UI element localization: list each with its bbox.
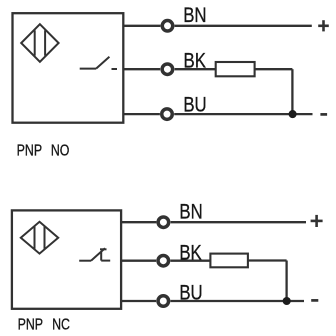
wire BU terminal to - (bottom) <box>170 300 304 302</box>
+ supply symbol (top) <box>318 20 329 31</box>
terminal circle BK (bottom) <box>158 255 169 266</box>
load resistor (bottom) <box>210 254 248 268</box>
junction node BK/BU (top) <box>289 110 297 118</box>
svg-text:BK: BK <box>179 242 202 265</box>
wire corner down to BU line (bottom) <box>285 261 287 302</box>
wire resistor to corner (top) <box>255 68 293 70</box>
wire BN box to terminal (bottom) <box>121 221 156 223</box>
wire BU box to terminal (top) <box>123 113 160 115</box>
inductive sensor symbol (diamond, top) <box>21 24 58 62</box>
wire corner down to BU line (top) <box>291 69 293 114</box>
wire BK terminal to load resistor (bottom) <box>170 260 210 262</box>
terminal circle BU (bottom) <box>158 296 169 307</box>
svg-text:NO: NO <box>51 141 70 159</box>
NC switch contact <box>79 248 110 261</box>
wire BU terminal to - (top) <box>174 113 312 115</box>
terminal circle BU (top) <box>162 109 173 120</box>
wire resistor to corner (bottom) <box>248 259 287 261</box>
svg-text:BN: BN <box>183 5 206 28</box>
wire BN terminal to + (bottom) <box>171 221 306 223</box>
svg-text:NC: NC <box>52 315 70 333</box>
svg-text:BN: BN <box>179 201 202 224</box>
- supply symbol (top) <box>320 113 327 116</box>
svg-text:BU: BU <box>183 94 206 117</box>
svg-text:PNP: PNP <box>17 141 42 159</box>
+ supply symbol (bottom) <box>311 215 323 227</box>
load resistor (top) <box>216 62 255 76</box>
terminal circle BN (bottom) <box>158 217 169 228</box>
wire BK terminal to load resistor (top) <box>175 68 216 70</box>
wire BK box to terminal (top) <box>123 68 160 70</box>
wire BK box to terminal (bottom) <box>121 260 156 262</box>
wire BN box to terminal (top) <box>123 25 160 27</box>
inductive sensor symbol (diamond, bottom) <box>21 222 58 254</box>
svg-text:BU: BU <box>179 282 202 305</box>
terminal circle BK (top) <box>162 64 173 75</box>
svg-text:PNP: PNP <box>18 315 43 333</box>
sensor body box (PNP NO) <box>13 13 124 123</box>
junction node BK/BU (bottom) <box>283 297 291 305</box>
sensor body box (PNP NC) <box>12 210 121 308</box>
NO switch contact <box>80 57 117 69</box>
wire BN terminal to + (top) <box>175 25 312 27</box>
- supply symbol (bottom) <box>311 299 318 302</box>
svg-text:BK: BK <box>184 50 207 73</box>
wire BU box to terminal (bottom) <box>121 300 156 302</box>
terminal circle BN (top) <box>162 21 173 32</box>
